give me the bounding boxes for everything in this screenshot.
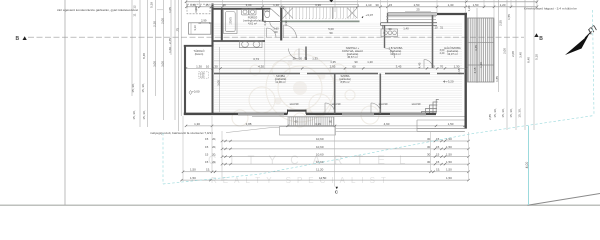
partition room1-room2 xyxy=(334,74,336,114)
svg-text:+3,20: +3,20 xyxy=(446,80,454,84)
svg-text:3,30: 3,30 xyxy=(263,20,267,26)
partition 1B-halo xyxy=(432,15,434,68)
svg-text:45,67 m²: 45,67 m² xyxy=(347,55,358,59)
roof line over bath block xyxy=(212,4,360,6)
svg-text:4,45: 4,45 xyxy=(418,62,422,68)
svg-text:90: 90 xyxy=(388,27,392,31)
top extension lines xyxy=(187,0,538,22)
svg-text:1,50: 1,50 xyxy=(446,153,452,157)
svg-text:mélyegigeszolt, balćsusólt fa: mélyegigeszolt, balćsusólt fa szerkezet … xyxy=(150,131,213,135)
svg-text:1,30: 1,30 xyxy=(194,122,200,126)
svg-text:20: 20 xyxy=(222,3,226,7)
svg-text:15: 15 xyxy=(389,3,393,7)
svg-text:1,50: 1,50 xyxy=(190,176,196,180)
svg-text:1,10: 1,10 xyxy=(366,3,372,7)
svg-text:+3,07: +3,07 xyxy=(366,13,374,17)
svg-text:15: 15 xyxy=(205,3,209,7)
svg-text:2,08: 2,08 xyxy=(511,51,515,57)
wall closet band rear xyxy=(386,16,436,18)
svg-text:1,85: 1,85 xyxy=(495,76,499,82)
svg-text:3,45: 3,45 xyxy=(396,65,402,69)
teal dashed vertical right xyxy=(593,10,595,116)
kitchen counter xyxy=(381,29,398,37)
svg-text:szél.90: szél.90 xyxy=(290,102,299,106)
room label 1B SZOBA xyxy=(389,46,403,56)
INTERIOR dimension line y67 xyxy=(186,67,466,69)
outer top dim line xyxy=(186,1,537,3)
entrance steps hatch xyxy=(288,117,334,126)
svg-text:4,18: 4,18 xyxy=(457,68,461,74)
door arcs xyxy=(267,25,433,113)
ground line xyxy=(0,204,600,206)
second top dim segment xyxy=(405,10,431,12)
bottom rows ticks xyxy=(180,140,469,182)
svg-text:15, 30,: 15, 30, xyxy=(518,108,522,117)
wall 1B left upper xyxy=(384,25,386,48)
room label SZOBA xyxy=(275,74,287,84)
svg-text:3,45: 3,45 xyxy=(474,45,478,51)
room label 2 SZOBA xyxy=(339,74,351,84)
room label NAPPALI xyxy=(342,46,363,59)
TOP dimension line xyxy=(187,6,538,8)
svg-text:70: 70 xyxy=(440,65,444,69)
svg-text:15: 15 xyxy=(205,145,209,149)
section marker C bottom xyxy=(336,187,339,190)
partition hall right xyxy=(305,47,307,61)
svg-text:15, 30,: 15, 30, xyxy=(501,108,505,117)
svg-text:60: 60 xyxy=(352,65,356,69)
wall left interior lower xyxy=(212,47,214,114)
svg-text:2,20: 2,20 xyxy=(440,52,445,55)
svg-text:15: 15 xyxy=(436,160,440,164)
svg-text:30: 30 xyxy=(427,137,431,141)
wall left inner leaf xyxy=(221,8,223,42)
room label FURDO xyxy=(243,15,262,26)
svg-text:15: 15 xyxy=(205,160,209,164)
wall projection top xyxy=(184,45,214,47)
north arrow xyxy=(565,35,589,56)
svg-text:11,96 m²: 11,96 m² xyxy=(275,80,286,84)
small interior dims xyxy=(282,6,444,106)
solid box outside left wall xyxy=(189,23,211,34)
svg-text:15: 15 xyxy=(205,137,209,141)
svg-text:4,00: 4,00 xyxy=(525,162,529,169)
svg-text:4,18: 4,18 xyxy=(473,67,477,73)
wall right dark xyxy=(465,13,467,129)
front terrace SE lines xyxy=(417,120,465,132)
svg-text:1,50: 1,50 xyxy=(446,145,452,149)
svg-text:13,44 m²: 13,44 m² xyxy=(390,52,401,56)
front eave line xyxy=(252,116,466,118)
svg-text:+0,00: +0,00 xyxy=(192,90,200,94)
svg-text:B: B xyxy=(16,36,20,42)
rotated interior dims xyxy=(194,7,259,86)
svg-text:3,00: 3,00 xyxy=(217,80,221,86)
svg-text:4,30: 4,30 xyxy=(258,65,264,69)
svg-text:11,20: 11,20 xyxy=(316,168,324,172)
svg-text:1,30: 1,30 xyxy=(448,3,454,7)
svg-text:1,20: 1,20 xyxy=(479,62,483,68)
svg-text:15: 15 xyxy=(436,145,440,149)
svg-text:3,00: 3,00 xyxy=(246,3,252,7)
svg-text:15,: 15, xyxy=(206,168,210,172)
svg-text:1,50: 1,50 xyxy=(190,168,196,172)
teal dashed vertical left xyxy=(163,10,594,205)
left rotated dims xyxy=(131,2,180,120)
svg-text:11: 11 xyxy=(133,13,137,16)
svg-text:1,33: 1,33 xyxy=(312,56,318,60)
wall projection left xyxy=(184,45,186,115)
washer dryer xyxy=(242,9,257,15)
room label TAROLO xyxy=(193,48,204,56)
svg-text:10,60: 10,60 xyxy=(316,145,324,149)
section line B-B dashed xyxy=(28,36,524,38)
label 3,00/2,20 xyxy=(440,49,445,55)
svg-text:8,55 m²: 8,55 m² xyxy=(340,80,349,84)
svg-text:30: 30 xyxy=(375,3,379,7)
svg-text:15, 30,: 15, 30, xyxy=(142,110,146,119)
svg-text:1,50: 1,50 xyxy=(446,168,452,172)
svg-text:5,39: 5,39 xyxy=(150,2,154,8)
svg-text:,75: ,75 xyxy=(176,28,180,33)
svg-text:2,55: 2,55 xyxy=(499,20,503,26)
wall left outer leaf xyxy=(211,4,213,47)
wall bottom main xyxy=(184,113,288,116)
svg-text:1,55: 1,55 xyxy=(507,14,511,20)
svg-text:30: 30 xyxy=(427,160,431,164)
wall rear-right block left xyxy=(387,13,389,23)
svg-text:15,: 15, xyxy=(436,168,440,172)
svg-text:170/75: 170/75 xyxy=(230,17,233,25)
svg-text:10,60: 10,60 xyxy=(316,137,324,141)
svg-text:-1,05: -1,05 xyxy=(199,76,205,79)
svg-text:szél.90: szél.90 xyxy=(412,102,421,106)
svg-text:13,37 m²: 13,37 m² xyxy=(447,52,458,56)
svg-text:B: B xyxy=(539,36,543,42)
svg-text:25: 25 xyxy=(416,8,420,12)
svg-text:3,96: 3,96 xyxy=(315,3,321,7)
svg-text:zárt égésterű kondenzációs gáz: zárt égésterű kondenzációs gázkazán, gyá… xyxy=(57,8,138,12)
svg-text:10: 10 xyxy=(206,65,210,69)
svg-text:1,20: 1,20 xyxy=(367,60,373,64)
svg-text:15: 15 xyxy=(436,153,440,157)
terrain diagonal bottom right xyxy=(528,194,600,206)
svg-text:4,60: 4,60 xyxy=(384,122,390,126)
interior wall bottom strip xyxy=(214,73,464,75)
svg-text:1,30: 1,30 xyxy=(196,65,202,69)
svg-text:1,50: 1,50 xyxy=(446,176,452,180)
svg-text:20,: 20, xyxy=(212,145,216,149)
svg-text:1,50: 1,50 xyxy=(190,3,196,7)
svg-text:1,50: 1,50 xyxy=(446,160,452,164)
svg-text:1,10: 1,10 xyxy=(273,3,279,7)
svg-text:15, 30,: 15, 30, xyxy=(141,83,145,92)
bottom rows numbers xyxy=(190,137,452,180)
svg-text:15: 15 xyxy=(205,153,209,157)
wall bath bottom xyxy=(214,40,266,42)
svg-text:szél.90: szél.90 xyxy=(379,102,388,106)
bathtub xyxy=(224,10,238,34)
svg-text:12: 12 xyxy=(133,5,137,9)
svg-text:10: 10 xyxy=(292,56,296,60)
svg-text:3,88: 3,88 xyxy=(246,122,252,126)
wall bath-wc partition xyxy=(262,9,264,22)
svg-text:20,: 20, xyxy=(212,137,216,141)
svg-text:3,13: 3,13 xyxy=(194,7,198,13)
dashed box outside left wall xyxy=(187,4,210,14)
vanity with twin sinks xyxy=(240,41,263,48)
dim row A y126 xyxy=(186,125,465,127)
svg-text:30: 30 xyxy=(214,65,218,69)
svg-text:3,00: 3,00 xyxy=(153,61,157,67)
hall dim line xyxy=(214,60,332,62)
svg-text:10: 10 xyxy=(434,26,438,30)
section marker B right xyxy=(534,33,538,37)
wall rear mid double xyxy=(381,22,438,24)
svg-text:1,90: 1,90 xyxy=(284,20,288,26)
svg-text:45: 45 xyxy=(282,6,286,10)
svg-text:1,60: 1,60 xyxy=(168,47,172,53)
svg-text:3,40: 3,40 xyxy=(519,52,523,58)
svg-text:1,05: 1,05 xyxy=(168,7,172,13)
svg-text:90: 90 xyxy=(274,30,278,34)
svg-text:30: 30 xyxy=(427,145,431,149)
svg-text:8,40: 8,40 xyxy=(527,57,531,63)
RIGHT dim verticals xyxy=(477,0,534,130)
svg-text:2,85: 2,85 xyxy=(488,114,492,120)
svg-text:2,75: 2,75 xyxy=(168,38,172,44)
svg-text:15, 30,: 15, 30, xyxy=(509,108,513,117)
svg-text:1,50: 1,50 xyxy=(473,3,479,7)
top hatch band pergola xyxy=(282,7,358,19)
svg-text:4,61 m²: 4,61 m² xyxy=(248,22,257,26)
svg-text:1,50: 1,50 xyxy=(448,122,454,126)
secondary dims y62 xyxy=(330,60,373,64)
svg-text:10,60: 10,60 xyxy=(316,153,324,157)
svg-text:1,30: 1,30 xyxy=(454,65,460,69)
teal dashed diagonal lower xyxy=(163,116,594,185)
svg-text:11,50: 11,50 xyxy=(319,176,327,180)
property line left vertical xyxy=(64,0,66,205)
wall rear-right top dark xyxy=(437,13,467,15)
BOTTOM dimension rows xyxy=(182,141,469,180)
svg-text:20,: 20, xyxy=(212,153,216,157)
LEFT dim verticals xyxy=(132,0,181,131)
svg-text:2,00: 2,00 xyxy=(503,48,507,54)
svg-text:90: 90 xyxy=(354,60,358,64)
wall entrance recess xyxy=(288,110,307,112)
svg-text:1,20: 1,20 xyxy=(500,3,506,7)
room label HALOSZOBA xyxy=(444,45,461,56)
wall rear-right window band xyxy=(388,13,438,16)
rear deck terrace boards xyxy=(468,18,495,82)
svg-text:20,: 20, xyxy=(212,160,216,164)
wall inner face line xyxy=(219,47,221,112)
extension line partition x264.8 xyxy=(264,28,266,70)
svg-text:15, 30,: 15, 30, xyxy=(131,83,135,92)
right rotated dims xyxy=(467,5,539,120)
partition room2-room3 xyxy=(379,74,381,114)
entrance stoop outline xyxy=(280,127,336,136)
windows in bottom wall xyxy=(238,113,426,115)
section marker C top xyxy=(329,0,333,2)
front walkway lines xyxy=(336,127,466,129)
interior parquet texture xyxy=(214,22,462,112)
door leaf terrace xyxy=(271,9,280,17)
svg-text:2,50: 2,50 xyxy=(414,3,420,7)
watermark ornament medallion xyxy=(232,49,379,127)
svg-text:2,99: 2,99 xyxy=(201,18,207,22)
svg-text:20: 20 xyxy=(299,56,303,60)
svg-text:5,10: 5,10 xyxy=(535,54,539,60)
bottom extension lines xyxy=(183,116,469,187)
svg-text:szél.90: szél.90 xyxy=(332,102,341,106)
svg-text:15, 30,: 15, 30, xyxy=(132,110,136,119)
extension line x181 xyxy=(180,0,182,116)
svg-text:15, 30,: 15, 30, xyxy=(493,108,497,117)
wall bath block top xyxy=(212,8,271,10)
svg-text:3,00: 3,00 xyxy=(161,61,165,67)
svg-text:3,15: 3,15 xyxy=(315,122,321,126)
wall hall-terrace x281 xyxy=(280,8,282,41)
svg-text:1,40: 1,40 xyxy=(403,27,409,31)
svg-text:1,20: 1,20 xyxy=(467,5,471,11)
wall hatch band bottom thick xyxy=(280,20,360,22)
svg-text:31: 31 xyxy=(440,26,444,30)
svg-text:REALTY SPECIALIST: REALTY SPECIALIST xyxy=(211,176,392,185)
svg-text:2,00: 2,00 xyxy=(161,18,165,24)
svg-text:30: 30 xyxy=(431,65,435,69)
closet dashed with levels xyxy=(199,72,209,78)
svg-text:70: 70 xyxy=(304,56,308,60)
svg-text:3,13: 3,13 xyxy=(193,25,197,31)
svg-text:8,48: 8,48 xyxy=(142,53,146,59)
svg-text:(beton): (beton) xyxy=(195,52,204,56)
svg-text:30: 30 xyxy=(427,153,431,157)
svg-text:3,73: 3,73 xyxy=(253,57,259,61)
SE corner steps nested xyxy=(422,100,439,114)
svg-text:2,30: 2,30 xyxy=(153,21,157,27)
svg-text:2,95: 2,95 xyxy=(330,65,336,69)
toilet xyxy=(265,9,270,17)
teal solid vertical xyxy=(528,126,530,205)
svg-text:50: 50 xyxy=(329,31,333,35)
